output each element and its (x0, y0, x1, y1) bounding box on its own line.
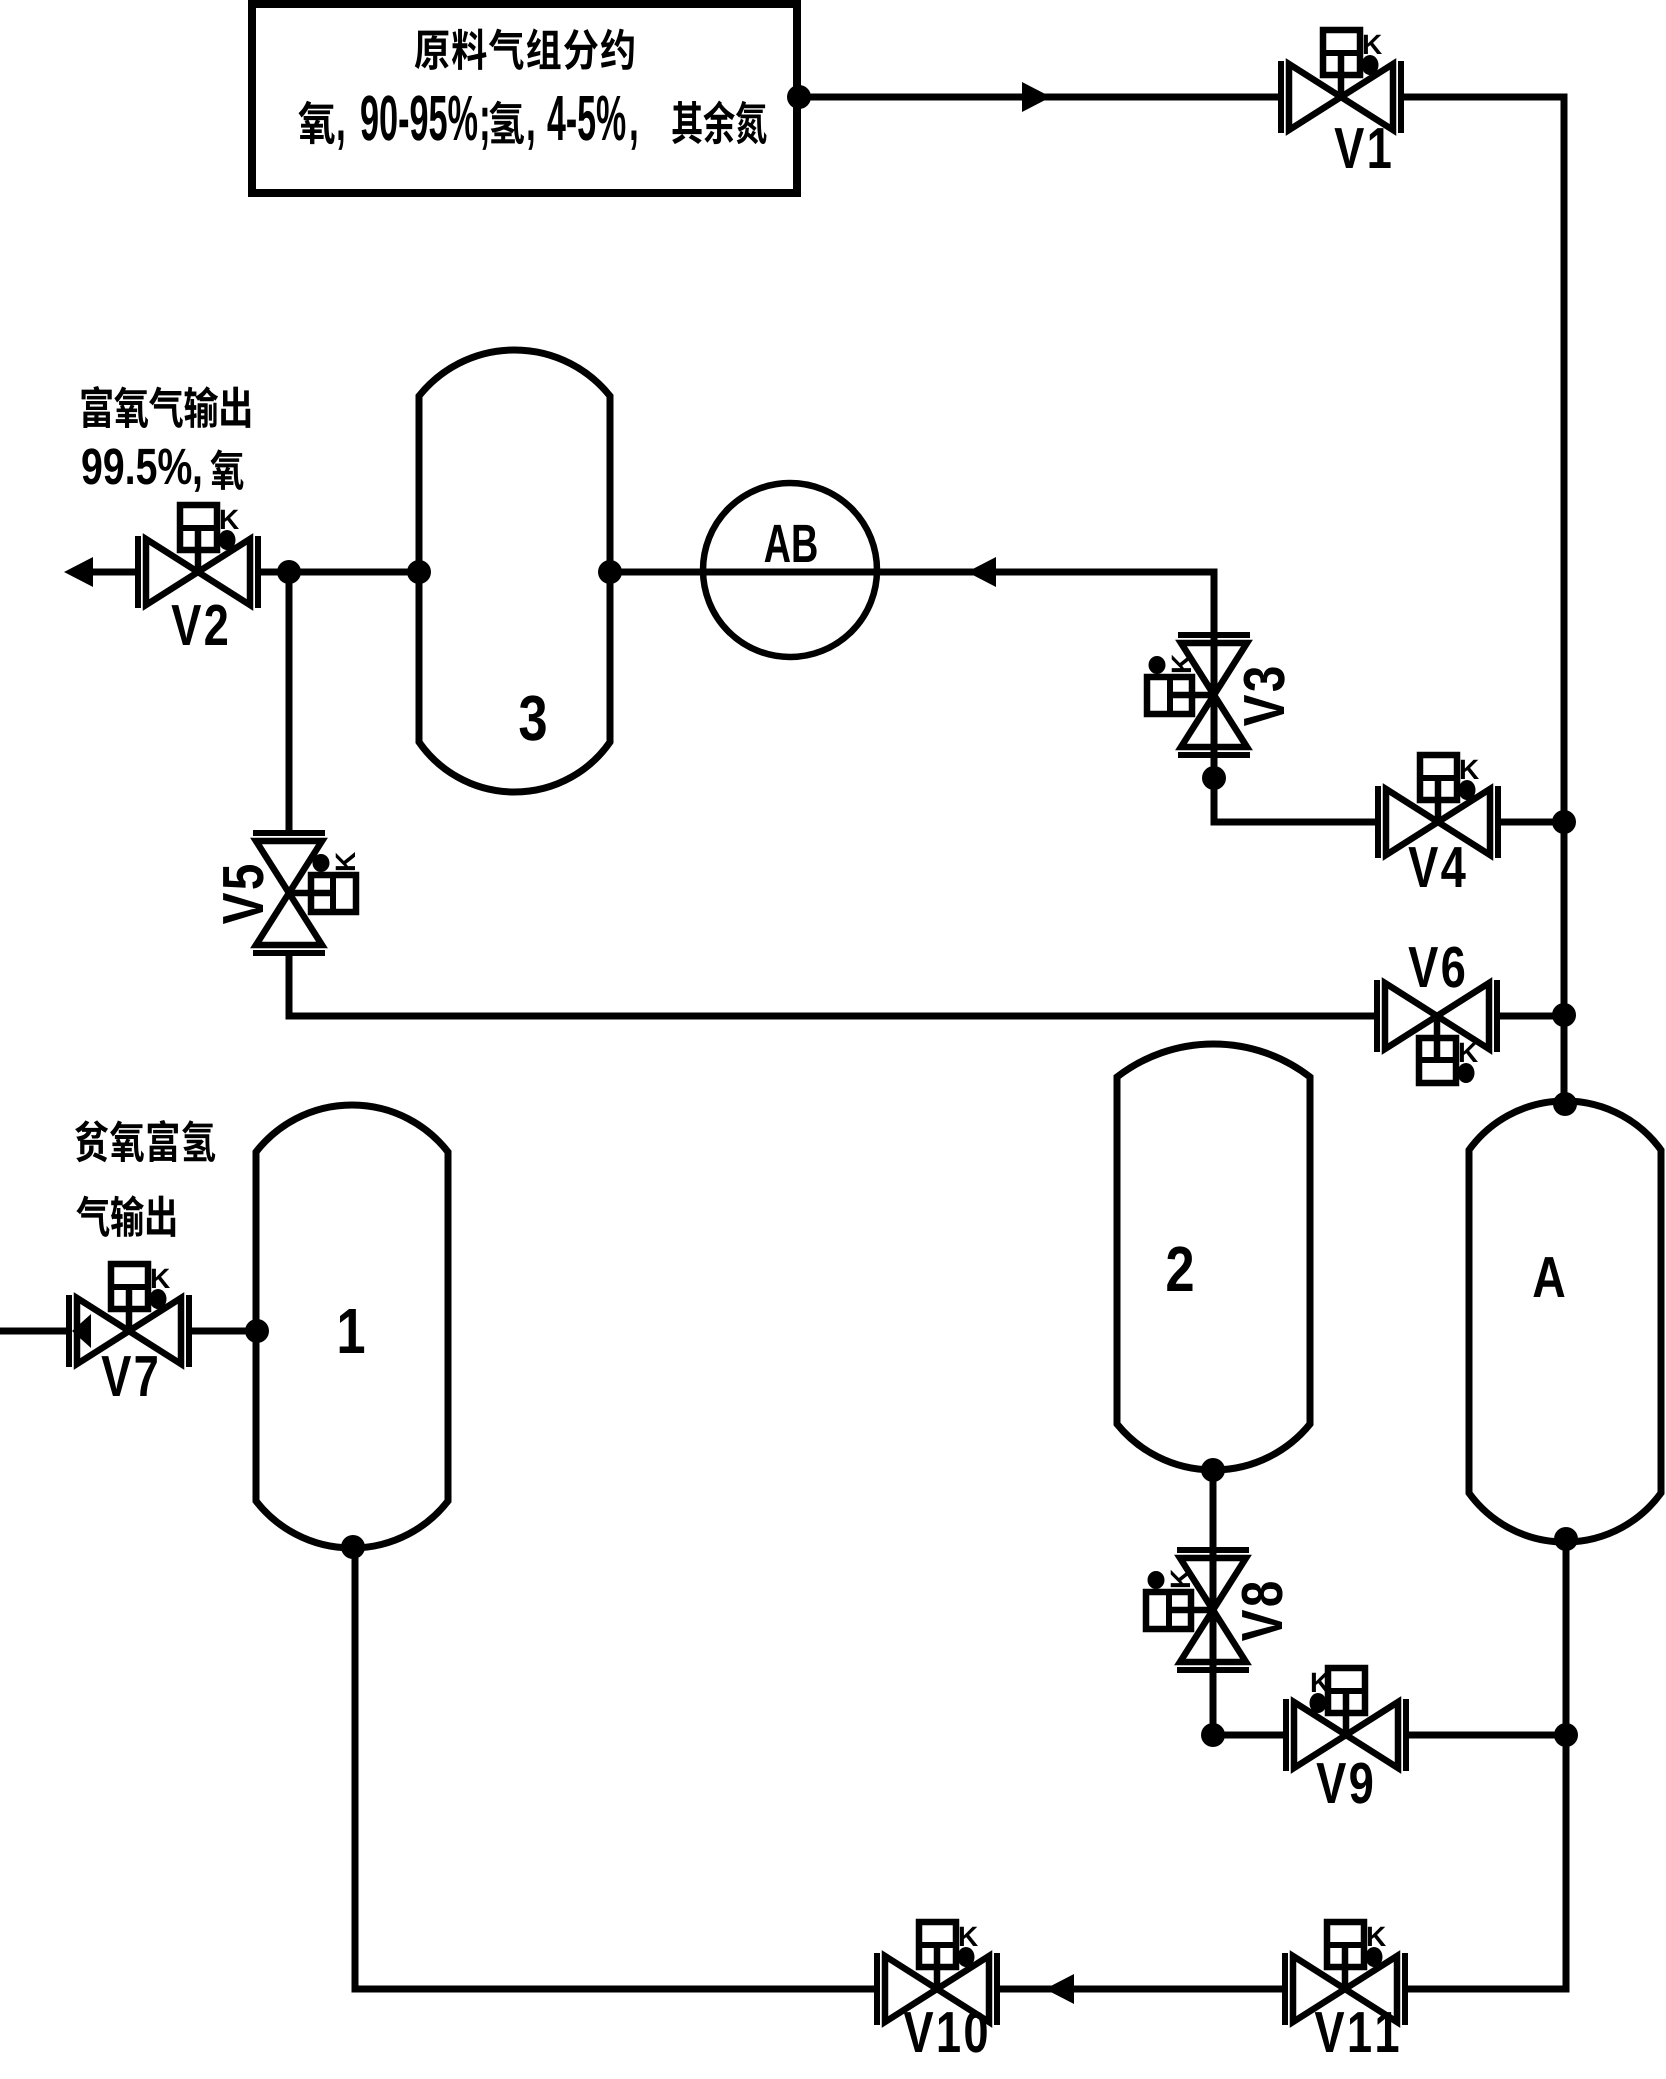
node vessel3 left nozzle (407, 560, 431, 584)
vessel 3 (419, 350, 610, 792)
label 气输出 (76, 1196, 109, 1237)
wire V10 to V11 (999, 1986, 1283, 1993)
wire V2 to vessel 3 (258, 569, 419, 576)
vessel 2 (1117, 1044, 1310, 1470)
wire vessel A to tee (1563, 1539, 1570, 1735)
valve V6 (1377, 980, 1497, 1052)
wire feed box to V1 (797, 94, 1281, 101)
valve V2 (138, 536, 258, 608)
vessel A (1469, 1101, 1661, 1542)
node V5 branch tee (277, 560, 301, 584)
wire right drop to V11 (1407, 1735, 1566, 1989)
flow arrow product out (64, 557, 93, 587)
valve V7 (69, 1295, 189, 1367)
label 99.5%, 氧 (82, 448, 191, 484)
label 贫氧富氢 (75, 1120, 108, 1162)
node vessel1 left nozzle (245, 1319, 269, 1343)
valve V11 (1285, 1953, 1405, 2025)
label feed line1 原料气组分约 (415, 31, 449, 70)
valve V8 (1177, 1550, 1249, 1670)
valve V10 (877, 1953, 997, 2025)
wire V1 to main riser and riser down (1404, 97, 1564, 1101)
valve V9 (1286, 1699, 1406, 1771)
valve V3 (1178, 635, 1250, 755)
wire V4 to riser (1500, 819, 1564, 826)
wire left edge to V7 (0, 1328, 67, 1335)
label 2 (1167, 1246, 1192, 1291)
node vessel2 bottom nozzle (1201, 1458, 1225, 1482)
label 1 (340, 1309, 364, 1353)
valve V5 (253, 833, 325, 953)
wire vessel1 drop to V10 (355, 1547, 875, 1989)
vessel 1 (256, 1105, 448, 1548)
wire V5 to V6 (289, 955, 1375, 1016)
wire V7 to vessel 1 (191, 1328, 257, 1335)
node vessel A top nozzle (1553, 1092, 1577, 1116)
node vessel3 right nozzle (598, 560, 622, 584)
node riser-V6 (1552, 1003, 1576, 1027)
wire arrow to V2 (92, 569, 138, 576)
node riser-V4 (1552, 810, 1576, 834)
label 3 (520, 695, 546, 740)
feed gas box (252, 4, 797, 193)
valve V1 (1281, 61, 1401, 133)
wire vessel2 through V8 to tee (1210, 1470, 1217, 1735)
flow arrow bottom left (1045, 1974, 1074, 2004)
node vessel A bottom nozzle (1554, 1527, 1578, 1551)
valve V4 (1378, 786, 1498, 858)
label AB (765, 525, 817, 562)
node vessel1 bottom nozzle (341, 1535, 365, 1559)
flow arrow toward AB (967, 557, 996, 587)
wire V6 to riser (1499, 1013, 1564, 1020)
node below V3 (1202, 766, 1226, 790)
label feed line2 氧,90-95%;氢,4-5%, 其余氮 (298, 101, 334, 144)
flow arrow right (1022, 82, 1051, 112)
node below V8 (1201, 1723, 1225, 1747)
node feed outlet (787, 85, 811, 109)
wire V8 tee to V9 (1213, 1732, 1284, 1739)
node right tee (1554, 1723, 1578, 1747)
label 富氧气输出 (82, 386, 112, 428)
wire tee down to V5 (286, 572, 293, 831)
wire V9 to right riser (1408, 1732, 1566, 1739)
wire vessel3 to AB, corner down through V3, to V4 (610, 572, 1375, 822)
instrument AB (703, 483, 877, 657)
label A (1533, 1257, 1564, 1297)
